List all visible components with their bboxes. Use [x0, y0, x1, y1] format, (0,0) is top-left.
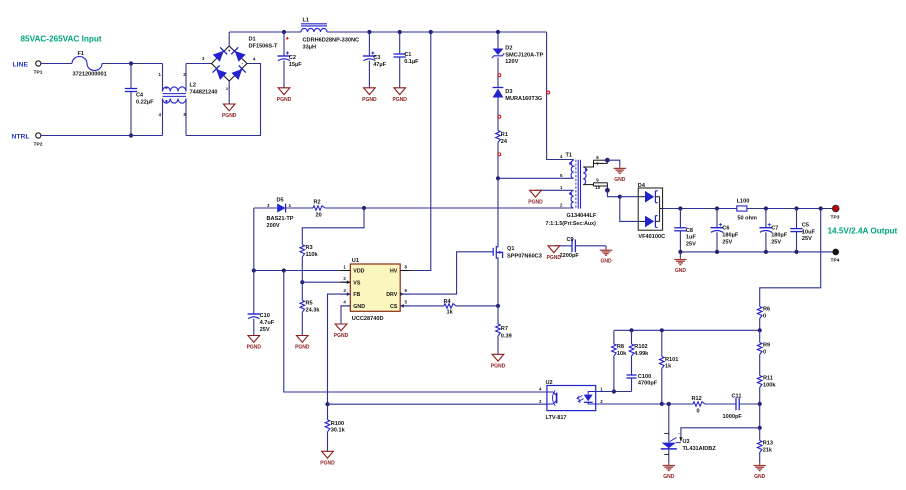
svg-text:21k: 21k: [763, 447, 773, 453]
wire opto pin2 row: [596, 403, 693, 405]
junction VDD/C10: [252, 268, 256, 272]
svg-text:TP1: TP1: [34, 70, 43, 76]
svg-text:120V: 120V: [505, 59, 518, 65]
wire D3 to R1: [497, 98, 499, 131]
ground PGND U1: [335, 324, 347, 331]
svg-text:VDD: VDD: [353, 269, 364, 275]
wire aux line: [364, 207, 574, 209]
svg-text:1000pF: 1000pF: [723, 414, 743, 420]
wire output bottom rail: [680, 251, 832, 253]
svg-text:20: 20: [316, 212, 322, 218]
junction R102 top: [629, 328, 633, 332]
svg-text:0.1µF: 0.1µF: [404, 59, 419, 65]
svg-text:GND: GND: [675, 268, 687, 274]
junction C2: [282, 30, 286, 34]
resistor R100: [327, 404, 329, 420]
svg-text:GND: GND: [614, 177, 626, 183]
svg-text:U1: U1: [352, 258, 359, 264]
ground PGND C1: [394, 88, 406, 95]
bridge rectifier D1: [212, 46, 248, 81]
capacitor C1: [399, 32, 401, 54]
junction HV branch: [429, 30, 433, 34]
wire L2 pin2 to bridge: [186, 63, 212, 65]
svg-text:25V: 25V: [260, 327, 270, 333]
ground GND C9: [605, 246, 607, 248]
wire D2 to D3: [497, 58, 499, 88]
resistor R101: [661, 330, 663, 356]
wire HV sense: [400, 32, 431, 271]
svg-text:R1: R1: [501, 132, 508, 138]
svg-text:SMCJ120A-TP: SMCJ120A-TP: [505, 52, 543, 58]
svg-text:50 ohm: 50 ohm: [737, 215, 757, 221]
wire feedback top rail: [614, 329, 760, 331]
junction sec bottom: [605, 188, 610, 193]
svg-text:LINE: LINE: [13, 62, 29, 69]
svg-text:VF40100C: VF40100C: [638, 234, 665, 240]
wire VDD rail: [254, 270, 350, 272]
svg-text:PGND: PGND: [362, 97, 377, 103]
junction FB/R100: [325, 402, 329, 406]
svg-text:F1: F1: [78, 51, 85, 57]
junction output sense: [819, 206, 823, 210]
net marker circle 3: [498, 153, 501, 156]
svg-text:10: 10: [595, 185, 600, 190]
svg-text:PGND: PGND: [222, 113, 237, 119]
wire TL431 ref: [681, 428, 760, 441]
ground PGND C10: [248, 336, 260, 343]
ground PGND R7: [492, 354, 504, 361]
svg-text:180µF: 180µF: [771, 233, 788, 239]
svg-text:14.5V/2.4A Output: 14.5V/2.4A Output: [828, 227, 898, 236]
svg-text:R13: R13: [763, 441, 773, 447]
svg-text:TL431AIDBZ: TL431AIDBZ: [683, 446, 717, 452]
test point TP2: [36, 133, 41, 138]
junction C8 bottom: [678, 250, 682, 254]
capacitor C7: [765, 209, 767, 228]
svg-text:LTV-817: LTV-817: [546, 415, 567, 421]
test point TP1: [36, 61, 41, 66]
resistor R8: [613, 330, 615, 344]
wire F1 to L2 pin1: [102, 63, 163, 65]
wire NTRL to L2 pin4: [41, 135, 163, 137]
junction C1: [398, 30, 402, 34]
svg-text:4.99k: 4.99k: [634, 351, 649, 357]
svg-text:25V: 25V: [802, 236, 812, 242]
wire CS net: [400, 305, 444, 307]
wire VDD to opto collector pin4: [284, 271, 547, 393]
svg-text:TP3: TP3: [831, 214, 840, 220]
svg-text:TP4: TP4: [831, 258, 840, 264]
svg-text:DF1506S-T: DF1506S-T: [249, 44, 278, 50]
svg-text:PGND: PGND: [334, 333, 349, 339]
junction R11/C11: [758, 402, 762, 406]
svg-text:FB: FB: [353, 292, 360, 298]
svg-text:DRV: DRV: [386, 292, 398, 298]
svg-text:47µF: 47µF: [373, 62, 386, 68]
svg-text:24: 24: [501, 139, 508, 145]
svg-text:GND: GND: [754, 474, 766, 480]
svg-text:110k: 110k: [306, 252, 319, 258]
svg-text:R9: R9: [763, 343, 770, 349]
svg-text:0: 0: [697, 408, 700, 414]
ground PGND aux: [530, 190, 542, 197]
svg-text:PGND: PGND: [491, 364, 506, 370]
junction R101 top: [660, 328, 664, 332]
junction R101 bottom: [660, 402, 664, 406]
wire output rail: [663, 208, 737, 210]
ground PGND C9: [548, 246, 560, 253]
net marker circle 1: [498, 74, 501, 77]
svg-text:10uF: 10uF: [802, 229, 816, 235]
svg-text:SPP07N60C3: SPP07N60C3: [507, 254, 542, 260]
svg-text:25V: 25V: [722, 239, 732, 245]
MOSFET Q1 SPP07N60C3: [497, 178, 499, 246]
svg-text:C9: C9: [567, 237, 574, 243]
svg-text:1k: 1k: [447, 310, 454, 316]
svg-text:R8: R8: [617, 344, 624, 350]
svg-text:NTRL: NTRL: [12, 134, 30, 141]
svg-text:UCC28740D: UCC28740D: [352, 316, 384, 322]
resistor R4: [444, 304, 456, 309]
svg-text:D4: D4: [638, 183, 646, 189]
svg-text:PGND: PGND: [295, 345, 310, 351]
resistor R9: [759, 330, 761, 342]
svg-text:C3: C3: [373, 55, 380, 61]
svg-text:R12: R12: [692, 396, 702, 402]
svg-text:GND: GND: [600, 259, 612, 265]
svg-text:C5: C5: [802, 223, 809, 229]
svg-text:PGND: PGND: [277, 97, 292, 103]
wire top DC rail: [229, 31, 301, 33]
junction CS/R7: [496, 304, 500, 308]
junction D2 branch: [496, 30, 500, 34]
capacitor C8: [679, 209, 681, 228]
svg-text:U3: U3: [683, 439, 690, 445]
wire opto pin1: [596, 391, 614, 393]
resistor R5: [301, 282, 303, 300]
junction primary snubber: [496, 176, 500, 180]
svg-text:MURA160T3G: MURA160T3G: [505, 96, 542, 102]
wire L2 pin3 to bridge: [186, 64, 261, 136]
svg-text:G134044LF: G134044LF: [567, 213, 597, 219]
junction R8/C100/opto pin1: [612, 389, 616, 393]
svg-text:C6: C6: [722, 226, 729, 232]
svg-text:U2: U2: [546, 380, 553, 386]
svg-text:L1: L1: [303, 18, 310, 24]
svg-text:T1: T1: [566, 153, 573, 159]
wire VS: [302, 281, 350, 283]
capacitor C5: [796, 209, 798, 229]
svg-text:33µH: 33µH: [303, 45, 317, 51]
svg-text:0.22µF: 0.22µF: [136, 100, 154, 106]
wire bridge- to PGND: [228, 81, 230, 104]
inductor L1: [301, 23, 327, 25]
junction sec top: [605, 158, 610, 163]
capacitor C4: [130, 64, 132, 89]
svg-text:C8: C8: [686, 228, 693, 234]
resistor R13: [759, 428, 761, 441]
wire FB net: [328, 294, 351, 404]
svg-text:744821240: 744821240: [190, 90, 218, 96]
junction C6 bottom: [715, 250, 719, 254]
T1 secondary pins 6 7 bracket: [583, 160, 593, 167]
wire rail to T1 pin4: [547, 32, 574, 160]
capacitor C10: [253, 271, 255, 315]
svg-text:37212000001: 37212000001: [73, 72, 107, 78]
wire R11 to ref junction: [759, 404, 761, 428]
svg-text:Q1: Q1: [507, 246, 514, 252]
svg-text:1uF: 1uF: [686, 235, 697, 241]
resistor R12: [693, 402, 705, 407]
junction C5 bottom: [794, 250, 798, 254]
junction C8: [678, 206, 682, 210]
wire DRV to gate: [400, 252, 490, 294]
svg-text:R102: R102: [634, 344, 647, 350]
svg-text:C7: C7: [771, 226, 778, 232]
svg-text:GND: GND: [663, 474, 675, 480]
diode D5: [277, 204, 285, 213]
TVS diode D2: [497, 32, 499, 49]
svg-text:24.3k: 24.3k: [306, 307, 321, 313]
wire snubber to T1 pin5: [498, 177, 574, 179]
svg-text:C2: C2: [289, 55, 296, 61]
svg-text:PGND: PGND: [528, 200, 543, 206]
svg-text:R2: R2: [314, 199, 321, 205]
junction LINE/C4: [129, 61, 133, 65]
U1 pin stubs: [341, 270, 351, 272]
svg-text:C11: C11: [732, 393, 742, 399]
wire R1 to primary node: [497, 143, 499, 179]
svg-text:R11: R11: [763, 376, 773, 382]
ground PGND C3: [364, 88, 376, 95]
svg-text:4.7uF: 4.7uF: [260, 320, 275, 326]
capacitor C100: [627, 374, 637, 376]
capacitor C11: [735, 398, 737, 410]
resistor R1: [496, 131, 501, 143]
svg-text:+: +: [228, 49, 231, 54]
svg-text:D1: D1: [249, 37, 256, 43]
junction C3: [367, 30, 371, 34]
wire R3 tap: [302, 208, 364, 245]
junction aux R3 tap: [362, 206, 366, 210]
wire C100 to opto junction: [614, 391, 632, 393]
svg-text:R4: R4: [444, 299, 452, 305]
ground GND secondary: [619, 166, 621, 168]
dual diode D4: [638, 188, 662, 230]
svg-text:30.1k: 30.1k: [331, 428, 346, 434]
fuse F1: [72, 57, 102, 71]
junction TL431 ref: [758, 426, 762, 430]
resistor R7: [497, 306, 499, 324]
svg-text:15µF: 15µF: [289, 62, 302, 68]
test point TP3: [832, 205, 839, 212]
svg-text:C1: C1: [404, 52, 411, 58]
junction VS divider: [300, 280, 304, 284]
junction D4 anodes: [618, 195, 622, 199]
svg-text:CS: CS: [390, 304, 398, 310]
ground PGND R100: [322, 451, 334, 458]
junction C7: [764, 206, 768, 210]
svg-text:200V: 200V: [267, 223, 280, 229]
svg-text:R6: R6: [763, 307, 770, 313]
resistor R3: [300, 245, 305, 257]
svg-text:25V: 25V: [686, 241, 696, 247]
svg-text:C100: C100: [638, 374, 651, 380]
junction C7 bottom: [764, 250, 768, 254]
svg-text:C4: C4: [136, 93, 144, 99]
wire U1 GND to PGND: [341, 306, 350, 324]
wire FB to opto pin3: [328, 403, 547, 405]
junction C6: [715, 206, 719, 210]
svg-text:PGND: PGND: [320, 461, 335, 467]
svg-text:VS: VS: [353, 280, 361, 286]
shunt regulator U3 TL431: [668, 404, 670, 443]
svg-text:4700pF: 4700pF: [638, 381, 658, 387]
svg-text:0: 0: [763, 313, 766, 319]
resistor R11: [757, 376, 762, 388]
svg-text:D2: D2: [505, 46, 512, 52]
resistor R6: [757, 307, 762, 319]
svg-text:100k: 100k: [763, 382, 776, 388]
resistor R2: [313, 206, 325, 211]
wire output sense to divider: [760, 209, 821, 307]
ground GND output: [679, 252, 681, 257]
ground PGND R5: [297, 336, 309, 343]
common-mode choke L2: [162, 64, 164, 92]
wire D5 branch down: [253, 208, 255, 271]
test point TP4: [832, 249, 839, 256]
wire sec bottom to D4: [607, 190, 619, 196]
svg-text:TP2: TP2: [34, 142, 43, 148]
junction divider top: [758, 328, 762, 332]
junction C5: [794, 206, 798, 210]
svg-text:85VAC-265VAC Input: 85VAC-265VAC Input: [21, 35, 102, 44]
resistor R102: [631, 330, 633, 344]
junction TL431 cathode: [667, 402, 671, 406]
T1 secondary pins 9 10 bracket: [583, 183, 593, 185]
net marker circle 4: [547, 91, 550, 94]
IC U1 UCC28740D: [350, 264, 400, 311]
junction NTRL/C4: [129, 133, 133, 137]
svg-text:10k: 10k: [617, 351, 627, 357]
svg-text:R5: R5: [306, 301, 313, 307]
svg-text:GND: GND: [353, 304, 365, 310]
svg-text:D3: D3: [505, 89, 512, 95]
svg-text:CDRH6D28NP-330NC: CDRH6D28NP-330NC: [303, 38, 360, 44]
svg-text:2200pF: 2200pF: [560, 253, 580, 259]
svg-text:D5: D5: [277, 197, 284, 203]
svg-text:R100: R100: [331, 421, 344, 427]
svg-text:PGND: PGND: [392, 97, 407, 103]
capacitor C9 bridging grounds: [554, 245, 572, 247]
capacitor C6: [716, 209, 718, 228]
svg-text:1k: 1k: [665, 364, 672, 370]
svg-text:R7: R7: [501, 326, 508, 332]
net marker circle 2: [498, 115, 501, 118]
ground GND U3: [668, 463, 670, 465]
wire sec top to GND: [607, 160, 619, 166]
svg-text:7:1:1.5(Pri:Sec:Aux): 7:1:1.5(Pri:Sec:Aux): [546, 221, 597, 227]
svg-text:HV: HV: [390, 269, 398, 275]
svg-text:R101: R101: [665, 357, 678, 363]
wire bridge+ to top rail: [228, 32, 230, 46]
net marker red plus: [286, 37, 289, 39]
capacitor C2: [283, 32, 285, 56]
svg-text:25V: 25V: [771, 239, 781, 245]
svg-text:C10: C10: [260, 313, 270, 319]
svg-text:PGND: PGND: [247, 345, 262, 351]
ferrite bead L100: [737, 206, 747, 211]
svg-text:0: 0: [763, 349, 766, 355]
diode D3: [493, 87, 504, 89]
ground PGND C2: [278, 88, 290, 95]
wire LINE to F1: [41, 63, 72, 65]
svg-text:L2: L2: [190, 83, 197, 89]
optocoupler U2 LTV-817: [547, 386, 596, 411]
ground GND R13: [759, 463, 761, 465]
svg-text:L100: L100: [737, 199, 750, 205]
wire aux pin1 to PGND: [536, 189, 574, 191]
svg-text:PGND: PGND: [547, 255, 562, 261]
svg-text:R3: R3: [306, 245, 313, 251]
svg-text:0.39: 0.39: [501, 333, 512, 339]
capacitor C3: [368, 32, 370, 56]
junction VDD/opto collector: [282, 268, 286, 272]
svg-text:BAS21-TP: BAS21-TP: [267, 216, 294, 222]
ground PGND bridge: [223, 104, 235, 111]
svg-text:180µF: 180µF: [722, 233, 739, 239]
